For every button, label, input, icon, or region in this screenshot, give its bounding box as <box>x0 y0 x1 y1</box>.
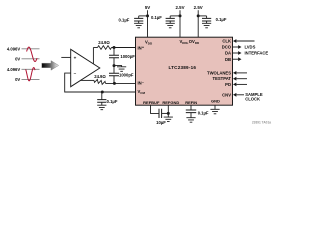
svg-text:REFIN: REFIN <box>185 100 197 105</box>
svg-text:0.1µF: 0.1µF <box>107 99 118 104</box>
svg-text:5V: 5V <box>145 5 150 10</box>
svg-text:DB: DB <box>225 57 231 62</box>
svg-text:CLOCK: CLOCK <box>245 96 260 101</box>
svg-text:INTERFACE: INTERFACE <box>245 51 269 56</box>
svg-text:CNV: CNV <box>222 92 231 97</box>
svg-text:DCO: DCO <box>222 45 232 50</box>
svg-text:10µF: 10µF <box>156 120 166 125</box>
svg-text:0.1µF: 0.1µF <box>119 17 130 22</box>
svg-text:+: + <box>142 46 144 50</box>
svg-text:LTC2389-16: LTC2389-16 <box>168 65 196 70</box>
svg-text:0.1µF: 0.1µF <box>151 15 162 20</box>
svg-text:0V: 0V <box>15 56 20 61</box>
svg-text:1000pF: 1000pF <box>119 72 134 77</box>
svg-text:2.5V: 2.5V <box>175 5 184 10</box>
svg-text:REFBUF: REFBUF <box>143 100 160 105</box>
svg-text:4.096V: 4.096V <box>7 46 20 51</box>
svg-text:TWOLANES: TWOLANES <box>207 70 231 75</box>
svg-text:24.9Ω: 24.9Ω <box>98 40 110 45</box>
svg-text:GND: GND <box>211 99 220 104</box>
svg-text:PD: PD <box>225 82 231 87</box>
svg-text:1000pF: 1000pF <box>120 54 135 59</box>
svg-text:CLK: CLK <box>222 39 231 44</box>
svg-text:–: – <box>142 81 144 85</box>
svg-text:0.1µF: 0.1µF <box>198 110 209 115</box>
svg-text:+: + <box>74 55 77 60</box>
svg-text:0.1µF: 0.1µF <box>216 17 227 22</box>
svg-text:–: – <box>74 71 77 76</box>
svg-text:0V: 0V <box>15 77 20 82</box>
svg-text:DA: DA <box>225 51 231 56</box>
svg-text:4.096V: 4.096V <box>7 67 20 72</box>
svg-text:LVDS: LVDS <box>245 44 256 49</box>
svg-text:REFGND: REFGND <box>162 100 179 105</box>
svg-text:24.9Ω: 24.9Ω <box>94 74 106 79</box>
svg-text:23891 TA01a: 23891 TA01a <box>252 121 271 125</box>
svg-text:2.5V: 2.5V <box>194 5 203 10</box>
svg-text:TESTPAT: TESTPAT <box>213 76 232 81</box>
